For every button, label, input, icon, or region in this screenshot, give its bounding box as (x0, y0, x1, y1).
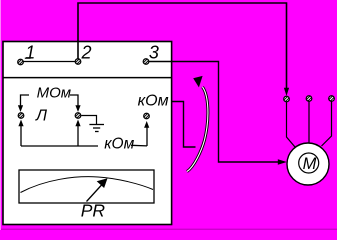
svg-text:М: М (303, 155, 317, 173)
svg-text:кОм: кОм (138, 93, 169, 110)
svg-text:1: 1 (25, 43, 35, 63)
svg-text:3: 3 (149, 43, 159, 63)
svg-text:PR: PR (81, 201, 106, 221)
svg-text:МОм: МОм (37, 85, 71, 102)
svg-text:кОм: кОм (104, 135, 134, 152)
svg-text:2: 2 (81, 43, 92, 63)
svg-text:Л: Л (35, 108, 47, 125)
